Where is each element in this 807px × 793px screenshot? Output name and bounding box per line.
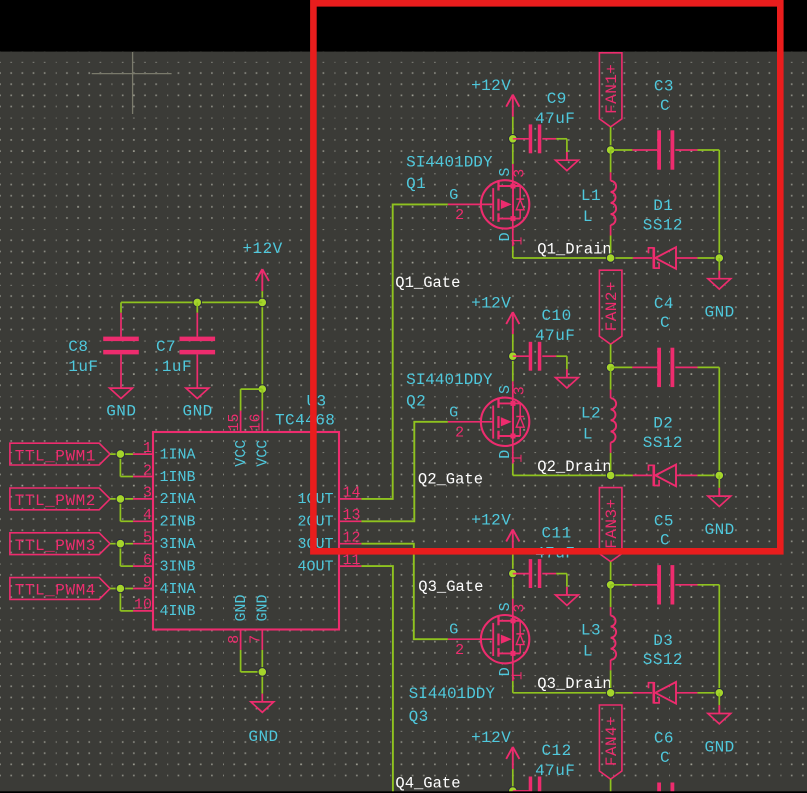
capacitor C5 ref label bbox=[654, 512, 674, 530]
wire FAN node to L2 bbox=[610, 367, 612, 389]
capacitor C12 bbox=[529, 777, 542, 793]
transistor Q3 pin label S bbox=[497, 602, 514, 611]
capacitor C8 top pin bbox=[120, 313, 122, 337]
svg-text:5: 5 bbox=[143, 530, 152, 547]
capacitor C7 bbox=[180, 337, 216, 355]
svg-text:L: L bbox=[583, 643, 593, 661]
U3 pin 8 GND bbox=[226, 594, 250, 649]
svg-text:7: 7 bbox=[248, 635, 265, 644]
U3 reference label bbox=[307, 392, 327, 410]
diode D2 lead left bbox=[633, 474, 652, 476]
svg-text:6: 6 bbox=[143, 552, 152, 569]
svg-text:+12V: +12V bbox=[471, 512, 511, 530]
svg-text:9: 9 bbox=[143, 574, 152, 591]
svg-text:Q3_Drain: Q3_Drain bbox=[537, 675, 611, 693]
capacitor C12 lead left bbox=[513, 790, 529, 792]
svg-text:D2: D2 bbox=[653, 415, 673, 433]
svg-text:15: 15 bbox=[226, 413, 243, 431]
U3 pin 12 3OUT bbox=[297, 530, 361, 554]
capacitor C5 bbox=[657, 565, 674, 604]
U3 pin 4 2INB bbox=[133, 507, 195, 531]
svg-text:3: 3 bbox=[511, 603, 528, 612]
transistor Q1 pin label G bbox=[449, 187, 458, 204]
svg-text:SS12: SS12 bbox=[643, 434, 683, 452]
ground symbol below C9 bbox=[556, 152, 579, 171]
svg-text:3INB: 3INB bbox=[160, 558, 196, 575]
wire to C7 bbox=[196, 302, 198, 312]
wire TTL_PWM2 to pin bbox=[110, 498, 133, 500]
junction FAN3+ node bbox=[606, 581, 615, 590]
capacitor C10 lead left bbox=[513, 355, 529, 357]
capacitor C4 lead right bbox=[675, 366, 697, 368]
svg-text:Q4_Gate: Q4_Gate bbox=[395, 774, 460, 792]
transistor Q1 pin label S bbox=[497, 167, 514, 176]
wire FAN2+ to node bbox=[610, 344, 612, 367]
wire Q1 drain down bbox=[512, 246, 514, 258]
wire FAN node to L1 bbox=[610, 150, 612, 172]
capacitor C4 value C bbox=[660, 314, 670, 332]
svg-text:4: 4 bbox=[143, 507, 152, 524]
global label FAN3+ bbox=[599, 488, 622, 562]
capacitor C3 ref label bbox=[654, 78, 674, 96]
svg-text:C8: C8 bbox=[68, 338, 88, 356]
svg-text:C: C bbox=[660, 532, 670, 550]
capacitor C9 lead left bbox=[513, 138, 529, 140]
svg-text:C6: C6 bbox=[654, 730, 674, 748]
junction +12V rail top bbox=[258, 298, 267, 307]
svg-text:FAN4+: FAN4+ bbox=[603, 716, 621, 766]
capacitor C7 value .1uF bbox=[152, 358, 192, 376]
capacitor C8 bottom pin bbox=[120, 354, 122, 388]
capacitor C10 ref label bbox=[542, 307, 572, 325]
wire node to C5 bbox=[611, 584, 633, 586]
capacitor C3 bbox=[657, 130, 674, 169]
wire FAN4+ down bbox=[610, 779, 612, 793]
label Q2_Gate bbox=[418, 471, 483, 489]
svg-text:2: 2 bbox=[455, 207, 464, 224]
diode D2 lead right bbox=[676, 474, 697, 476]
wire TTL_PWM4 to pin bbox=[110, 588, 133, 590]
power +12V channel 1 label bbox=[471, 77, 511, 95]
svg-text:Q1_Drain: Q1_Drain bbox=[537, 240, 611, 258]
ground symbol ch3 bbox=[708, 693, 731, 724]
svg-text:1: 1 bbox=[509, 236, 526, 245]
transistor Q3 name SI4401DDY bbox=[409, 685, 496, 703]
transistor Q3 pin number 3 bbox=[511, 603, 528, 612]
svg-text:L2: L2 bbox=[581, 404, 601, 422]
red annotation rectangle bbox=[313, 3, 780, 551]
power +12V channel 2 symbol bbox=[506, 312, 519, 334]
transistor Q3 SI4401DDY bbox=[481, 615, 529, 663]
svg-text:16: 16 bbox=[248, 413, 265, 431]
U3 pin 2 1INB bbox=[133, 462, 195, 486]
svg-text:Q3_Gate: Q3_Gate bbox=[418, 578, 483, 596]
transistor Q2 drain pin bbox=[512, 436, 514, 464]
U3 pin 13 2OUT bbox=[297, 507, 361, 531]
capacitor C10 value 47uF bbox=[535, 327, 575, 345]
capacitor C7 top pin bbox=[196, 313, 198, 337]
wire D3 to gnd node bbox=[697, 692, 719, 694]
wire +12V to Q3 source bbox=[512, 552, 514, 599]
capacitor C4 bbox=[657, 348, 674, 387]
svg-text:GND: GND bbox=[705, 304, 735, 322]
inductor L1 bbox=[611, 181, 617, 225]
svg-text:L3: L3 bbox=[581, 622, 601, 640]
ground symbol below C10 bbox=[556, 369, 579, 388]
svg-text:4OUT: 4OUT bbox=[297, 558, 333, 575]
junction TTL_PWM1 bbox=[116, 450, 125, 459]
top black toolbar area bbox=[0, 0, 807, 52]
wire L1 to drain rail bbox=[610, 236, 612, 259]
capacitor C6 ref label bbox=[654, 730, 674, 748]
inductor L2 bottom pin bbox=[610, 442, 612, 453]
transistor Q2 gate pin bbox=[448, 421, 493, 423]
wire drain rail ch3 bbox=[513, 692, 633, 694]
U3 pin 5 3INA bbox=[133, 530, 195, 554]
capacitor C5 lead right bbox=[675, 584, 697, 586]
capacitor C12 value 47uF bbox=[535, 762, 575, 780]
wire pin8 to gnd bbox=[241, 650, 263, 672]
junction TTL_PWM2 bbox=[116, 495, 125, 504]
ground symbol ch1 bbox=[708, 258, 731, 289]
wire C4 to gnd rail bbox=[698, 367, 720, 475]
svg-text:+12V: +12V bbox=[471, 294, 511, 312]
diode D3 lead left bbox=[633, 692, 652, 694]
svg-text:C10: C10 bbox=[542, 307, 572, 325]
U3 pin 15 VCC bbox=[226, 411, 250, 467]
transistor Q1 pin number 1 bbox=[509, 236, 526, 245]
capacitor C12 ref label bbox=[542, 742, 572, 760]
transistor Q1 pin label D bbox=[497, 232, 514, 241]
label Q1_Gate bbox=[395, 274, 460, 292]
capacitor C9 ref label bbox=[547, 90, 567, 108]
svg-text:Q3: Q3 bbox=[409, 708, 429, 726]
svg-text:+12V: +12V bbox=[471, 729, 511, 747]
transistor Q2 SI4401DDY bbox=[481, 398, 529, 446]
U3 value TC4468 bbox=[275, 412, 335, 430]
transistor Q3 pin number 2 bbox=[455, 642, 464, 659]
svg-text:GND: GND bbox=[248, 728, 278, 746]
diode D2 value SS12 bbox=[643, 434, 683, 452]
diode D1 value SS12 bbox=[643, 216, 683, 234]
capacitor C9 lead right bbox=[542, 138, 556, 140]
svg-text:GND: GND bbox=[705, 738, 735, 756]
wire Q3 drain down bbox=[512, 681, 514, 693]
svg-text:C9: C9 bbox=[547, 90, 567, 108]
transistor Q1 pin number 3 bbox=[511, 168, 528, 177]
ground label below C8 bbox=[106, 402, 136, 420]
capacitor C10 bbox=[529, 342, 542, 371]
svg-text:+12V: +12V bbox=[242, 240, 282, 258]
global label FAN2+ bbox=[599, 270, 622, 344]
junction TTL_PWM4 bbox=[116, 584, 125, 593]
capacitor C11 value 47uF bbox=[535, 545, 575, 563]
inductor L2 value L bbox=[583, 425, 593, 443]
wire L3 to drain rail bbox=[610, 670, 612, 693]
power +12V channel 3 symbol bbox=[506, 530, 519, 552]
svg-text:13: 13 bbox=[343, 507, 361, 524]
transistor Q2 name SI4401DDY bbox=[406, 371, 493, 389]
diode D3 SS12 bbox=[649, 682, 677, 704]
capacitor C6 value C bbox=[660, 749, 670, 767]
U3 pin 16 VCC bbox=[248, 411, 272, 467]
wire +12V ch4 down bbox=[512, 769, 514, 793]
svg-text:1INB: 1INB bbox=[160, 469, 196, 486]
transistor Q1 name SI4401DDY bbox=[406, 154, 493, 172]
svg-text:3: 3 bbox=[143, 485, 152, 502]
wire FAN1+ to node bbox=[610, 127, 612, 150]
junction drain node ch2 bbox=[606, 471, 615, 480]
svg-text:G: G bbox=[449, 187, 458, 204]
capacitor C4 ref label bbox=[654, 295, 674, 313]
svg-text:Q2_Gate: Q2_Gate bbox=[418, 471, 483, 489]
U3 pin 9 4INA bbox=[133, 574, 195, 598]
power +12V channel 4 label bbox=[471, 729, 511, 747]
capacitor C7 bottom pin bbox=[196, 354, 198, 388]
transistor Q3 drain pin bbox=[512, 653, 514, 681]
inductor L1 top pin bbox=[610, 172, 612, 180]
label Q2_Drain bbox=[537, 458, 611, 476]
label Q1_Drain bbox=[537, 240, 611, 258]
svg-text:TTL_PWM3: TTL_PWM3 bbox=[15, 537, 96, 555]
svg-text:4INA: 4INA bbox=[160, 581, 196, 598]
svg-text:3INA: 3INA bbox=[160, 536, 196, 553]
svg-text:2: 2 bbox=[143, 462, 152, 479]
svg-text:D1: D1 bbox=[653, 197, 673, 215]
ground symbol below C11 bbox=[556, 587, 579, 606]
transistor Q1 gate pin bbox=[448, 203, 493, 205]
junction gnd node ch1 bbox=[715, 254, 724, 263]
svg-text:SI4401DDY: SI4401DDY bbox=[406, 154, 493, 172]
label Q3_Gate bbox=[418, 578, 483, 596]
svg-text:GND: GND bbox=[705, 521, 735, 539]
capacitor C8 bbox=[103, 337, 139, 355]
transistor Q2 pin label S bbox=[497, 385, 514, 394]
svg-text:TC4468: TC4468 bbox=[275, 412, 335, 430]
capacitor C4 lead left bbox=[632, 366, 657, 368]
diode D1 ref label bbox=[653, 197, 673, 215]
svg-text:1: 1 bbox=[509, 671, 526, 680]
svg-text:2: 2 bbox=[455, 642, 464, 659]
junction +12V node ch4 bbox=[509, 787, 518, 793]
svg-text:3: 3 bbox=[511, 386, 528, 395]
svg-text:C3: C3 bbox=[654, 78, 674, 96]
power +12V left label bbox=[242, 240, 282, 258]
svg-text:C: C bbox=[660, 749, 670, 767]
svg-text:G: G bbox=[449, 622, 458, 639]
wire +12V to Q2 source bbox=[512, 334, 514, 381]
capacitor C11 lead left bbox=[513, 573, 529, 575]
global label TTL_PWM1 bbox=[10, 443, 110, 465]
wire FAN3+ to node bbox=[610, 562, 612, 585]
global label TTL_PWM3 bbox=[10, 533, 110, 555]
wire TTL_PWM2 branch bbox=[120, 499, 133, 521]
power +12V channel 3 label bbox=[471, 512, 511, 530]
ground label ch1 bbox=[705, 304, 735, 322]
svg-text:2: 2 bbox=[455, 424, 464, 441]
diode D3 lead right bbox=[676, 692, 697, 694]
svg-text:L: L bbox=[583, 425, 593, 443]
inductor L2 ref label bbox=[581, 404, 601, 422]
wire TTL_PWM1 branch bbox=[120, 454, 133, 476]
svg-text:G: G bbox=[449, 404, 458, 421]
svg-text:1: 1 bbox=[509, 454, 526, 463]
diode D1 SS12 bbox=[649, 247, 677, 269]
svg-text:D3: D3 bbox=[653, 632, 673, 650]
capacitor C3 value C bbox=[660, 97, 670, 115]
svg-text:Q2_Drain: Q2_Drain bbox=[537, 458, 611, 476]
svg-text:4INB: 4INB bbox=[160, 603, 196, 620]
junction +12V node ch3 bbox=[509, 569, 518, 578]
junction gnd node ch2 bbox=[715, 471, 724, 480]
U3 pin 14 1OUT bbox=[297, 485, 361, 509]
U3 pin 10 4INB bbox=[133, 597, 195, 621]
svg-text:1uF: 1uF bbox=[68, 358, 98, 376]
wire L2 to drain rail bbox=[610, 453, 612, 476]
svg-text:10: 10 bbox=[134, 597, 152, 614]
junction +12V node ch2 bbox=[509, 352, 518, 361]
wire TTL_PWM3 branch bbox=[120, 544, 133, 566]
inductor L1 value L bbox=[583, 208, 593, 226]
transistor Q2 source pin bbox=[512, 381, 514, 403]
ground label ch3 bbox=[705, 738, 735, 756]
wire C10 to ground bbox=[556, 356, 567, 369]
capacitor C11 ref label bbox=[542, 525, 572, 543]
wire 4OUT to Q4 gate bbox=[361, 566, 393, 793]
svg-text:SI4401DDY: SI4401DDY bbox=[409, 685, 496, 703]
label Q4_Gate bbox=[395, 774, 460, 792]
wire C9 to ground bbox=[556, 139, 567, 152]
wire drain rail ch2 bbox=[513, 474, 633, 476]
svg-text:12: 12 bbox=[343, 530, 361, 547]
global label FAN4+ bbox=[599, 705, 622, 779]
ground symbol below C8 bbox=[110, 388, 133, 398]
wire +12V rail down bbox=[261, 291, 263, 389]
junction FAN2+ node bbox=[606, 363, 615, 372]
U3 pin 6 3INB bbox=[133, 552, 195, 576]
U3 pin 7 GND bbox=[248, 594, 272, 649]
wire rail to caps bbox=[121, 301, 262, 303]
svg-text:3: 3 bbox=[511, 168, 528, 177]
wire FAN node to L3 bbox=[610, 585, 612, 607]
svg-text:SS12: SS12 bbox=[643, 216, 683, 234]
transistor Q2 pin label D bbox=[497, 449, 514, 458]
svg-text:FAN1+: FAN1+ bbox=[603, 64, 621, 114]
svg-text:2INA: 2INA bbox=[160, 491, 196, 508]
capacitor C8 value 1uF bbox=[68, 358, 98, 376]
wire Q2 drain down bbox=[512, 464, 514, 476]
wire TTL_PWM3 to pin bbox=[110, 543, 133, 545]
junction chip gnd bbox=[258, 668, 267, 677]
svg-text:Q1_Gate: Q1_Gate bbox=[395, 274, 460, 292]
transistor Q3 gate pin bbox=[448, 638, 493, 640]
wire to C8 bbox=[120, 302, 122, 312]
U3 pin 3 2INA bbox=[133, 485, 195, 509]
U3 pin 11 4OUT bbox=[297, 552, 361, 576]
diode D2 SS12 bbox=[649, 465, 677, 487]
transistor Q2 ref bbox=[406, 393, 426, 411]
junction gnd node ch3 bbox=[715, 689, 724, 698]
capacitor C7 ref label bbox=[156, 338, 176, 356]
diode D3 ref label bbox=[653, 632, 673, 650]
global label TTL_PWM2 bbox=[10, 488, 110, 510]
diode D1 lead left bbox=[633, 257, 652, 259]
power +12V channel 4 symbol bbox=[506, 747, 519, 769]
wire TTL_PWM1 to pin bbox=[110, 453, 133, 455]
svg-text:GND: GND bbox=[183, 402, 213, 420]
transistor Q3 ref bbox=[409, 708, 429, 726]
transistor Q2 pin number 2 bbox=[455, 424, 464, 441]
inductor L3 top pin bbox=[610, 607, 612, 615]
bottom black bar bbox=[0, 791, 807, 793]
svg-text:C12: C12 bbox=[542, 742, 572, 760]
junction drain node ch1 bbox=[606, 254, 615, 263]
svg-text:1: 1 bbox=[143, 440, 152, 457]
wire C5 to gnd rail bbox=[698, 585, 720, 693]
svg-text:FAN2+: FAN2+ bbox=[603, 281, 621, 331]
junction VCC split bbox=[258, 385, 267, 394]
svg-text:GND: GND bbox=[106, 402, 136, 420]
ground label below C7 bbox=[183, 402, 213, 420]
power +12V channel 1 symbol bbox=[506, 95, 519, 117]
svg-text:VCC: VCC bbox=[233, 440, 250, 467]
capacitor C3 lead left bbox=[632, 149, 657, 151]
wire 1OUT to Q1 gate bbox=[361, 204, 448, 499]
wire drain rail ch1 bbox=[513, 257, 633, 259]
capacitor C9 value 47uF bbox=[535, 110, 575, 128]
ground symbol below C7 bbox=[186, 388, 209, 398]
wire C11 to ground bbox=[556, 574, 567, 587]
junction +12V node ch1 bbox=[509, 135, 518, 144]
svg-text:1INA: 1INA bbox=[160, 446, 196, 463]
svg-text:SS12: SS12 bbox=[643, 651, 683, 669]
inductor L1 ref label bbox=[581, 187, 601, 205]
svg-text:L: L bbox=[583, 208, 593, 226]
wire node to C4 bbox=[611, 366, 633, 368]
ground label ch2 bbox=[705, 521, 735, 539]
capacitor C5 lead left bbox=[632, 584, 657, 586]
svg-text:TTL_PWM1: TTL_PWM1 bbox=[15, 447, 96, 465]
wire 2OUT to Q2 gate bbox=[361, 422, 448, 522]
transistor Q1 ref bbox=[406, 175, 426, 193]
inductor L2 bbox=[611, 398, 617, 442]
svg-text:8: 8 bbox=[226, 635, 243, 644]
svg-text:C: C bbox=[660, 314, 670, 332]
inductor L3 bottom pin bbox=[610, 660, 612, 671]
svg-text:FAN3+: FAN3+ bbox=[603, 498, 621, 548]
junction C7 tap bbox=[193, 298, 202, 307]
capacitor C5 value C bbox=[660, 532, 670, 550]
wire C3 to gnd rail bbox=[698, 150, 720, 258]
power +12V left symbol bbox=[256, 269, 269, 291]
svg-text:2INB: 2INB bbox=[160, 514, 196, 531]
svg-text:GND: GND bbox=[255, 594, 272, 621]
svg-text:Q1: Q1 bbox=[406, 175, 426, 193]
label Q3_Drain bbox=[537, 675, 611, 693]
wire pin7 to gnd bbox=[261, 650, 263, 694]
svg-text:TTL_PWM2: TTL_PWM2 bbox=[15, 492, 96, 510]
transistor Q1 source pin bbox=[512, 164, 514, 186]
power +12V channel 2 label bbox=[471, 294, 511, 312]
diode D3 value SS12 bbox=[643, 651, 683, 669]
svg-text:.1uF: .1uF bbox=[152, 358, 192, 376]
wire D1 to gnd node bbox=[697, 257, 719, 259]
junction TTL_PWM3 bbox=[116, 539, 125, 548]
ground symbol chip bbox=[251, 694, 274, 713]
transistor Q3 source pin bbox=[512, 599, 514, 621]
svg-text:L1: L1 bbox=[581, 187, 601, 205]
inductor L3 ref label bbox=[581, 622, 601, 640]
